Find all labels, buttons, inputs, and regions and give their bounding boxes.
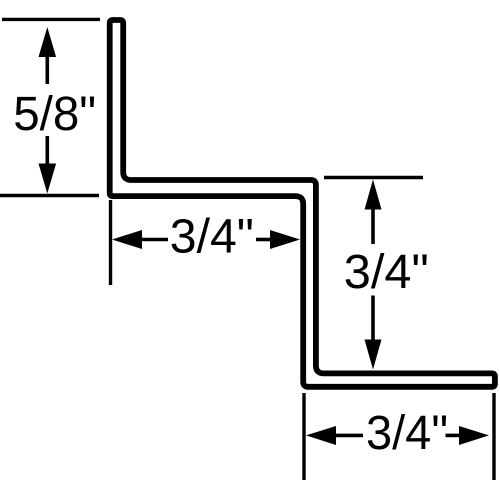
dimension 3/4 vertical down arrow — [371, 296, 375, 342]
svg-text:5/8": 5/8" — [13, 88, 96, 141]
svg-text:3/4": 3/4" — [366, 407, 448, 460]
dimension 5/8 down arrow — [45, 136, 49, 166]
extension line top (5/8 dim, upper) — [2, 18, 100, 21]
dimension 3/4 middle right arrow — [256, 238, 272, 242]
extension line right (3/4 vertical dim, upper) — [324, 176, 423, 179]
dimension 3/4 bottom right arrow — [446, 434, 462, 438]
Z-profile outline — [110, 20, 495, 387]
dimension 3/4 bottom left arrow — [306, 426, 336, 445]
extension line bottom right (3/4 bottom dim) — [492, 393, 495, 480]
extension line below corner 1 (3/4 middle dim, left) — [109, 200, 112, 285]
svg-text:3/4": 3/4" — [170, 211, 254, 264]
dimension 5/8 up arrow — [39, 27, 57, 57]
dimension 3/4 middle left arrow — [112, 230, 142, 249]
dimension 3/4 vertical up arrow — [365, 180, 382, 210]
extension line bottom left (3/4 bottom dim) — [302, 393, 305, 480]
svg-text:3/4": 3/4" — [344, 246, 429, 299]
extension line (5/8 dim, lower) — [0, 194, 99, 197]
